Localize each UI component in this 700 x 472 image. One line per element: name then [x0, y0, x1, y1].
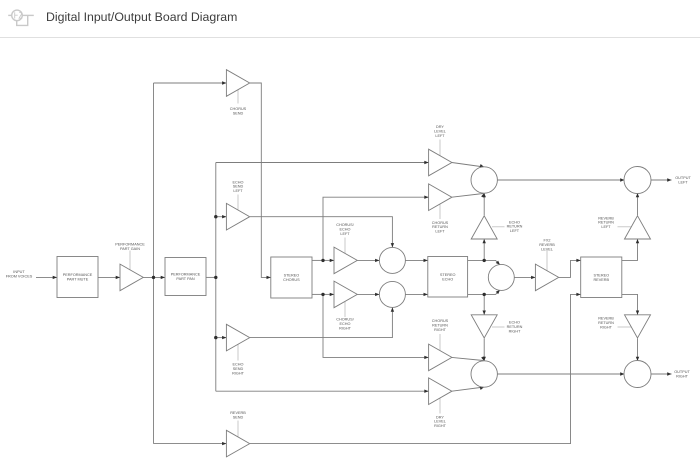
wire chorus out right stub	[312, 293, 323, 295]
label chorus return right	[432, 319, 449, 332]
node echo send right junction	[214, 336, 217, 339]
wire reverb mixer to fx2 amp	[514, 276, 535, 279]
wire echo out left stub	[468, 259, 485, 261]
amplifier echo return right	[471, 315, 497, 338]
node chorus out left junction	[321, 259, 324, 262]
amplifier chorus-echo left	[334, 247, 357, 274]
svg-text:Digital Input/Output Board Dia: Digital Input/Output Board Diagram	[46, 10, 237, 24]
label output left	[675, 176, 691, 184]
label dry level left	[434, 125, 446, 138]
wire reverb send to stereo reverb	[250, 293, 581, 444]
block stereo echo	[428, 257, 468, 298]
svg-text:REVERB: REVERB	[598, 317, 614, 321]
amplifier performance part gain	[120, 264, 143, 291]
svg-text:LEVEL: LEVEL	[434, 420, 446, 424]
connector echo return left	[492, 226, 505, 228]
svg-text:LEFT: LEFT	[435, 134, 445, 138]
svg-text:PERFORMANCE: PERFORMANCE	[171, 273, 201, 277]
svg-text:LEVEL: LEVEL	[541, 247, 553, 251]
svg-text:PART PAN: PART PAN	[176, 277, 195, 281]
wire chorus return right to right mixer	[452, 356, 486, 361]
header logo icon	[8, 10, 34, 25]
svg-text:RETURN: RETURN	[598, 321, 614, 325]
wire chorus-echo right amp to mixer	[358, 293, 380, 296]
svg-text:RETURN: RETURN	[432, 323, 448, 327]
label chorus-echo left	[336, 223, 354, 236]
wire echo node right to reverb mixer	[484, 289, 501, 295]
connector reverb return right	[618, 326, 632, 328]
wire dry right line	[216, 390, 429, 393]
svg-text:ECHO: ECHO	[509, 220, 520, 224]
label chorus send	[230, 107, 247, 115]
svg-text:LEFT: LEFT	[233, 189, 243, 193]
svg-text:RIGHT: RIGHT	[600, 325, 612, 329]
wire chorus return left to left mixer	[452, 192, 486, 197]
connector reverb return left	[618, 226, 632, 228]
block stereo chorus	[271, 257, 312, 298]
amplifier dry level left	[429, 149, 452, 176]
connector chorus return left	[439, 204, 441, 219]
amplifier chorus send	[226, 70, 249, 97]
svg-text:PART MUTE: PART MUTE	[67, 278, 89, 282]
svg-text:RETURN: RETURN	[432, 225, 448, 229]
header divider	[0, 37, 700, 39]
svg-text:PART GAIN: PART GAIN	[120, 247, 140, 251]
connector dry level left	[439, 140, 441, 157]
amplifier chorus return left	[429, 184, 452, 211]
label echo send right	[232, 363, 244, 376]
wire chorus return left line	[323, 196, 429, 261]
svg-text:CHORUS: CHORUS	[432, 319, 449, 323]
connector chorus send	[237, 90, 239, 104]
wire output left arrow	[651, 178, 672, 181]
svg-text:REVERB: REVERB	[598, 216, 614, 220]
wire echo out right stub	[468, 293, 485, 295]
svg-text:RETURN: RETURN	[507, 225, 523, 229]
mixer output right channel	[471, 361, 497, 387]
wire reverb return right to output mixer	[636, 339, 639, 362]
svg-text:REVERB: REVERB	[230, 411, 246, 415]
wire echo node right to echo return right	[483, 294, 486, 314]
svg-text:PERFORMANCE: PERFORMANCE	[63, 273, 93, 277]
svg-text:REVERB: REVERB	[593, 278, 609, 282]
wire echo send left to left echo mixer	[250, 217, 394, 248]
connector echo return right	[492, 326, 505, 328]
label performance part gain	[115, 242, 145, 250]
wire reverb out right to reverb return right	[622, 294, 639, 314]
svg-text:RETURN: RETURN	[598, 221, 614, 225]
svg-text:CHORUS/: CHORUS/	[336, 223, 354, 227]
wire chorus node to chorus-echo right amp	[323, 293, 334, 296]
svg-text:ECHO: ECHO	[233, 180, 244, 184]
svg-text:SEND: SEND	[233, 367, 244, 371]
wire echo send right feed	[216, 336, 227, 339]
label chorus return left	[432, 221, 449, 234]
svg-text:ECHO: ECHO	[340, 322, 351, 326]
amplifier reverb send	[226, 430, 249, 457]
mixer output left channel	[471, 167, 497, 193]
node echo out left junction	[483, 259, 486, 262]
wire dry right to right mixer	[452, 385, 485, 391]
wire dry left line	[216, 161, 429, 164]
wire pan bus vertical	[215, 163, 217, 392]
wire echo return left to left mixer	[483, 193, 486, 215]
wire output right arrow	[651, 372, 672, 375]
mixer final output left	[624, 167, 651, 194]
svg-text:STEREO: STEREO	[440, 273, 456, 277]
connector performance part gain	[129, 251, 131, 270]
svg-text:PERFORMANCE: PERFORMANCE	[115, 242, 145, 246]
amplifier fx2 reverb level	[535, 264, 558, 291]
svg-text:LEFT: LEFT	[510, 229, 520, 233]
svg-text:RIGHT: RIGHT	[434, 328, 446, 332]
label reverb send	[230, 411, 246, 419]
wire bus gain-node vertical	[153, 83, 155, 444]
wire right mixer to output mixer	[497, 372, 624, 375]
amplifier chorus return right	[429, 344, 452, 371]
wire left echo mixer to stereo echo	[405, 259, 427, 262]
block stereo reverb	[581, 257, 622, 298]
svg-text:STEREO: STEREO	[284, 274, 300, 278]
wire gain amp to pan box	[143, 276, 165, 279]
svg-text:SEND: SEND	[233, 185, 244, 189]
svg-text:ECHO: ECHO	[340, 227, 351, 231]
amplifier reverb return left	[625, 216, 651, 239]
svg-text:LEFT: LEFT	[340, 232, 350, 236]
block performance part pan	[165, 258, 206, 296]
svg-text:CHORUS: CHORUS	[230, 107, 247, 111]
label chorus-echo right	[336, 318, 354, 331]
wire reverb out left to reverb return left	[622, 239, 639, 260]
svg-text:LEVEL: LEVEL	[434, 130, 446, 134]
svg-text:ECHO: ECHO	[509, 321, 520, 325]
block performance part mute	[57, 257, 98, 298]
svg-text:OUTPUT: OUTPUT	[675, 176, 691, 180]
wire pan box to pan bus	[206, 276, 216, 278]
wire echo node left to reverb mixer	[484, 260, 501, 266]
wire dry left to left mixer	[452, 163, 485, 169]
svg-text:ECHO: ECHO	[233, 363, 244, 367]
svg-text:RIGHT: RIGHT	[509, 329, 521, 333]
mixer final output right	[624, 361, 651, 388]
wire echo send right to right echo mixer	[250, 307, 394, 337]
label echo return right	[507, 321, 523, 334]
amplifier echo send right	[226, 324, 249, 351]
label dry level right	[434, 415, 447, 428]
wire reverb send feed	[154, 442, 227, 445]
connector chorus-echo left	[344, 238, 346, 254]
node echo out right junction	[483, 293, 486, 296]
wire chorus return right line	[323, 294, 429, 359]
svg-text:STEREO: STEREO	[593, 273, 609, 277]
svg-text:SEND: SEND	[233, 112, 244, 116]
svg-text:RIGHT: RIGHT	[339, 326, 351, 330]
mixer echo input right	[379, 281, 405, 307]
wire reverb return left to output mixer	[636, 193, 639, 215]
wire echo return right to right mixer	[483, 339, 486, 362]
amplifier echo send left	[226, 203, 249, 230]
wire input to part mute	[36, 276, 57, 279]
wire chorus send to stereo chorus	[250, 83, 271, 279]
svg-text:CHORUS: CHORUS	[283, 278, 300, 282]
svg-text:ECHO: ECHO	[442, 277, 453, 281]
wire chorus send feed	[154, 81, 227, 84]
wire mute to gain amp	[98, 276, 120, 279]
node pan output junction	[214, 276, 217, 279]
svg-text:INPUT: INPUT	[13, 270, 25, 274]
label fx2 reverb level	[539, 239, 555, 252]
connector dry level right	[439, 398, 441, 414]
node echo send left junction	[214, 215, 217, 218]
svg-text:DRY: DRY	[436, 125, 444, 129]
wire echo send left feed	[216, 215, 227, 218]
connector echo send right	[237, 344, 239, 360]
amplifier reverb return right	[625, 315, 651, 338]
svg-text:LEFT: LEFT	[601, 225, 611, 229]
wire chorus node to chorus-echo left amp	[323, 259, 334, 262]
svg-text:RETURN: RETURN	[507, 325, 523, 329]
svg-text:FROM VOICES: FROM VOICES	[6, 275, 33, 279]
amplifier echo return left	[471, 216, 497, 239]
svg-text:FX2: FX2	[544, 239, 551, 243]
label input from voices	[6, 270, 33, 278]
svg-text:OUTPUT: OUTPUT	[674, 370, 690, 374]
wire right echo mixer to stereo echo	[405, 293, 427, 296]
connector chorus return right	[439, 334, 441, 351]
wire echo node left to echo return left	[483, 239, 486, 260]
label echo return left	[507, 220, 523, 233]
svg-text:SEND: SEND	[233, 416, 244, 420]
mixer echo input left	[379, 247, 405, 273]
svg-text:RIGHT: RIGHT	[676, 375, 688, 379]
mixer reverb send sum	[488, 264, 514, 290]
label reverb return right	[598, 317, 614, 330]
svg-text:CHORUS/: CHORUS/	[336, 318, 354, 322]
label output right	[674, 370, 690, 378]
amplifier chorus-echo right	[334, 281, 357, 308]
label reverb return left	[598, 216, 614, 229]
svg-text:LEFT: LEFT	[435, 230, 445, 234]
label echo send left	[233, 180, 244, 193]
connector echo send left	[237, 195, 239, 210]
wire left mixer to output mixer	[497, 178, 624, 181]
svg-text:REVERB: REVERB	[539, 243, 555, 247]
connector chorus-echo right	[344, 301, 346, 317]
connector fx2 reverb level	[546, 251, 548, 271]
wire chorus-echo left amp to mixer	[358, 259, 380, 262]
node gain output junction	[152, 276, 155, 279]
wire chorus out left stub	[312, 259, 323, 261]
node chorus out right junction	[321, 293, 324, 296]
svg-text:DRY: DRY	[436, 415, 444, 419]
svg-text:RIGHT: RIGHT	[434, 424, 446, 428]
svg-text:LEFT: LEFT	[678, 181, 688, 185]
wire fx2 amp to stereo reverb	[559, 259, 581, 278]
amplifier dry level right	[429, 378, 452, 405]
svg-text:RIGHT: RIGHT	[232, 372, 244, 376]
connector reverb send	[237, 421, 239, 437]
svg-text:CHORUS: CHORUS	[432, 221, 449, 225]
